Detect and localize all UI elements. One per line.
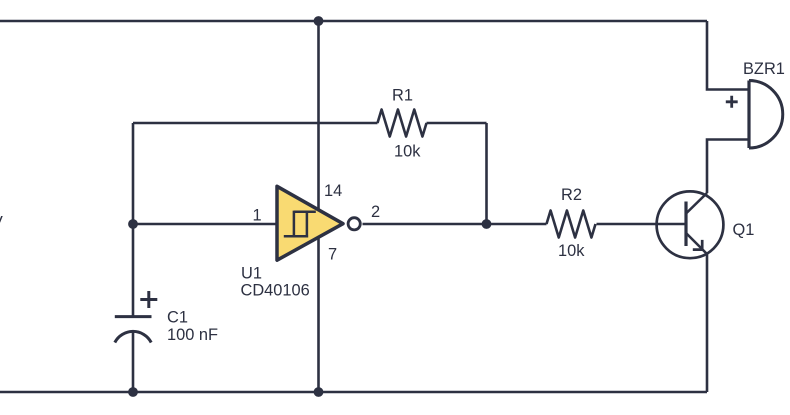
node junction pin7 ground — [314, 387, 324, 397]
wire buzzer bottom to collector — [707, 140, 749, 194]
svg-text:14: 14 — [324, 182, 342, 200]
svg-text:1: 1 — [253, 207, 262, 225]
buzzer BZR1 — [749, 81, 783, 149]
hysteresis symbol U1 — [284, 211, 316, 238]
svg-text:C1: C1 — [167, 309, 188, 327]
wire emitter to ground rail — [706, 254, 709, 392]
wire bottom rail ground — [0, 391, 707, 394]
svg-text:BZR1: BZR1 — [743, 60, 785, 78]
wire inverter output to R2 — [363, 223, 547, 226]
wire left node vertical — [132, 123, 135, 316]
wire inverter input — [133, 223, 277, 226]
emitter arrow Q1 — [693, 240, 704, 251]
op-amp U1 inverter triangle — [277, 186, 343, 260]
resistor R2 — [547, 211, 596, 238]
capacitor C1 — [115, 317, 152, 343]
transistor Q1 — [657, 191, 724, 258]
svg-text:U1: U1 — [241, 264, 262, 282]
svg-text:CD40106: CD40106 — [241, 282, 310, 300]
node junction cap ground — [128, 387, 138, 397]
svg-text:10k: 10k — [394, 143, 421, 161]
svg-text:R1: R1 — [392, 87, 413, 105]
svg-text:R2: R2 — [561, 186, 582, 204]
wire capacitor bottom to rail — [132, 332, 135, 393]
wire top rail right drop to buzzer — [707, 21, 749, 90]
wire feedback horizontal right — [427, 122, 487, 125]
wire top rail V+ — [0, 20, 707, 23]
wire feedback horizontal left — [133, 122, 378, 125]
inversion bubble U1 output — [348, 218, 360, 230]
svg-text:9V: 9V — [0, 214, 3, 232]
node junction top rail / supply — [314, 16, 324, 26]
wire pin-14/7 vertical supply line — [317, 21, 320, 392]
node junction output feedback — [482, 219, 492, 229]
svg-text:7: 7 — [328, 246, 337, 264]
node junction input — [128, 219, 138, 229]
plus polarity mark C1 — [140, 291, 157, 308]
wire R2 to Q1 base — [597, 223, 687, 226]
wire feedback vertical drop — [485, 123, 488, 224]
svg-text:2: 2 — [371, 203, 380, 221]
svg-text:Q1: Q1 — [733, 221, 755, 239]
svg-text:100 nF: 100 nF — [167, 326, 218, 344]
svg-text:10k: 10k — [558, 242, 585, 260]
plus polarity mark BZR1 — [726, 96, 738, 108]
resistor R1 — [378, 110, 427, 137]
